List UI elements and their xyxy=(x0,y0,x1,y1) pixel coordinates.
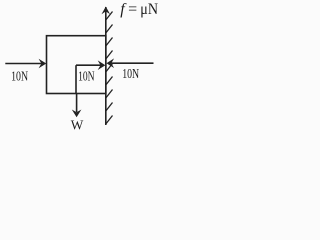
svg-text:10N: 10N xyxy=(11,69,28,84)
svg-text:W: W xyxy=(71,118,84,133)
svg-text:10N: 10N xyxy=(78,69,95,84)
svg-text:μN: μN xyxy=(140,1,158,18)
svg-text:=: = xyxy=(128,1,137,18)
svg-text:10N: 10N xyxy=(122,66,139,81)
